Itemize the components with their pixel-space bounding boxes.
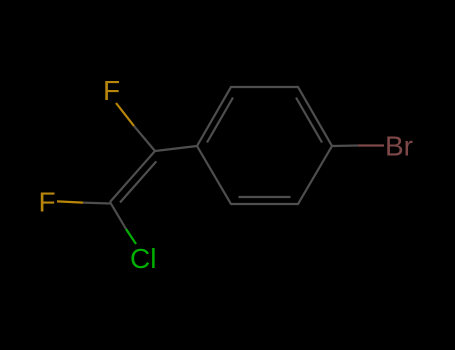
wire: bond C2-Cl (Cl half, green) [126, 229, 136, 244]
benzene ring outline [197, 87, 332, 204]
wire: bond F1-C1 (F half, goldenrod) [116, 103, 134, 126]
wire: bond ring-Br (C half, gray) [332, 144, 358, 147]
wire: bond F1-C1 (C half, gray) [134, 126, 155, 151]
svg-text:F: F [39, 187, 56, 218]
wire: double bond C1=C2 second line [120, 161, 156, 202]
ring inner double bond line bottom [239, 196, 291, 198]
wire: bond F2-C2 (F half, goldenrod) [57, 201, 83, 202]
svg-text:F: F [103, 75, 120, 106]
ring inner double bond line upper-right [296, 98, 322, 143]
wire: bond C1-ring [155, 146, 197, 151]
wire: bond ring-Br (Br half, dark red) [358, 144, 384, 146]
wire: bond C2-Cl (C half, gray) [110, 202, 126, 229]
wire: bond F2-C2 (C half, gray) [83, 202, 110, 205]
ring inner double bond line upper-left [207, 98, 233, 143]
wire: double bond C1=C2 main line [110, 151, 155, 202]
svg-text:Br: Br [385, 131, 413, 162]
svg-text:Cl: Cl [130, 243, 156, 274]
